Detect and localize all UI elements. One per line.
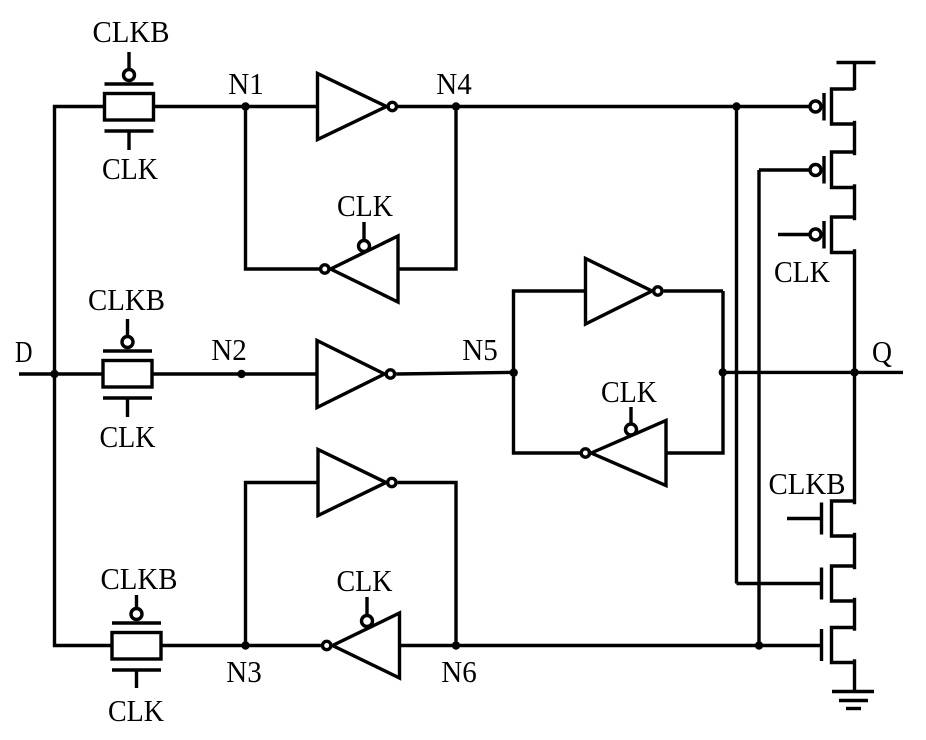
wire: U2 input from N4 vertical	[398, 107, 456, 270]
svg-text:N3: N3	[226, 654, 262, 689]
wire: rail M3 to M4 through Q node	[853, 251, 856, 503]
inverter U3 (middle forward)	[317, 341, 395, 408]
wire: middle latch right vertical	[666, 291, 723, 453]
inverter U4 (middle latch forward)	[586, 259, 663, 325]
wire: top latch left vertical and bottom wire	[246, 107, 321, 270]
svg-text:N4: N4	[436, 66, 472, 101]
svg-text:N5: N5	[462, 332, 498, 367]
svg-text:CLK: CLK	[601, 374, 658, 409]
transistor M5 (NMOS, gate to rail R1)	[822, 566, 855, 601]
svg-text:N6: N6	[441, 654, 477, 689]
node: latch2 output / Q wire junction	[719, 368, 727, 376]
svg-text:CLK: CLK	[774, 254, 831, 289]
node: D / left rail junction	[50, 370, 58, 378]
wire: D input to TG2	[19, 372, 103, 375]
wire: U6 output to bottom latch right vertical (N6)	[398, 483, 456, 646]
node: Q / transistor rail junction	[850, 368, 858, 376]
svg-text:N1: N1	[228, 66, 264, 101]
wire: N4 to PMOS M1 gate	[456, 105, 810, 108]
svg-text:CLKB: CLKB	[93, 14, 170, 49]
transistor M2 (PMOS, gate to rail R2)	[810, 152, 855, 188]
wire: Q output	[723, 371, 903, 374]
wire: rail M6 to ground	[853, 661, 856, 691]
svg-text:CLK: CLK	[108, 693, 165, 728]
transmission gate TG1	[105, 52, 154, 150]
wire: M2 gate to rail R2	[759, 168, 810, 171]
clocked inverter U2 (top latch feedback)	[321, 222, 398, 302]
wire: M3 gate stub	[778, 233, 810, 236]
node: N4 wire / rail R1 junction	[732, 102, 740, 110]
wire: TG2 to N2	[152, 372, 242, 375]
clocked inverter U7 (bottom latch feedback)	[323, 597, 400, 678]
svg-text:CLKB: CLKB	[101, 561, 178, 596]
svg-text:D: D	[15, 334, 33, 369]
wire: N1 to inverter U1	[246, 105, 318, 108]
transistor M6 (NMOS, gate from N6)	[822, 628, 855, 663]
wire: bottom latch left vertical (N3) and top wire	[246, 483, 319, 646]
svg-text:Q: Q	[872, 334, 892, 369]
node N5	[510, 368, 518, 376]
node N2	[237, 370, 245, 378]
ground	[832, 692, 874, 709]
wire: N2 to inverter U3	[242, 372, 318, 375]
transmission gate TG2	[103, 319, 152, 417]
node N6	[452, 641, 460, 649]
node N4	[452, 102, 460, 110]
node N3	[241, 641, 249, 649]
wire: left vertical rail with branches to TG1 and TG3	[55, 107, 113, 646]
wire: M4 gate stub	[787, 517, 820, 520]
svg-text:CLK: CLK	[337, 188, 394, 223]
wire: rail M1 to M2	[853, 123, 856, 154]
svg-text:CLK: CLK	[100, 419, 157, 454]
wire: rail M4 to M5	[853, 535, 856, 568]
svg-text:CLK: CLK	[102, 151, 159, 186]
wire: N3 to U7 output bubble	[246, 644, 321, 647]
svg-text:CLKB: CLKB	[769, 466, 846, 501]
transistor M1 (PMOS, gate from N4)	[810, 89, 855, 124]
wire: U4 output to latch right vertical	[664, 289, 723, 292]
node N1	[241, 102, 249, 110]
wire: rail R2 (PMOS M2 gate to N6 wire)	[757, 170, 760, 646]
wire: M5 gate to rail R1	[737, 582, 821, 585]
inverter U1 (top latch forward)	[318, 74, 397, 140]
inverter U6 (bottom latch forward)	[318, 450, 396, 516]
node: N6 wire / rail R2 junction	[755, 641, 763, 649]
wire: rail R1 (N4 wire to M5 gate)	[735, 107, 738, 584]
wire: U3 output to N5	[396, 372, 513, 374]
wire: TG1 to N1	[154, 105, 246, 108]
transmission gate TG3	[112, 595, 161, 688]
wire: N6 to NMOS M6 gate	[456, 644, 820, 647]
svg-text:N2: N2	[211, 332, 247, 367]
wire: U7 input from N6	[400, 644, 457, 647]
svg-text:CLK: CLK	[337, 563, 394, 598]
svg-text:CLKB: CLKB	[88, 282, 165, 317]
wire: TG3 to N3	[161, 644, 246, 647]
wire: rail M5 to M6	[853, 600, 856, 630]
wire: rail M2 to M3	[853, 186, 856, 219]
transistor M3 (PMOS, gate CLK)	[810, 217, 855, 253]
VDD supply	[837, 63, 876, 91]
wire: middle latch left vertical with top and bottom branches	[514, 291, 586, 453]
clocked inverter U5 (middle latch feedback)	[581, 407, 666, 486]
wire: U1 output to N4	[398, 105, 456, 108]
transistor M4 (NMOS, gate CLKB)	[822, 501, 855, 536]
